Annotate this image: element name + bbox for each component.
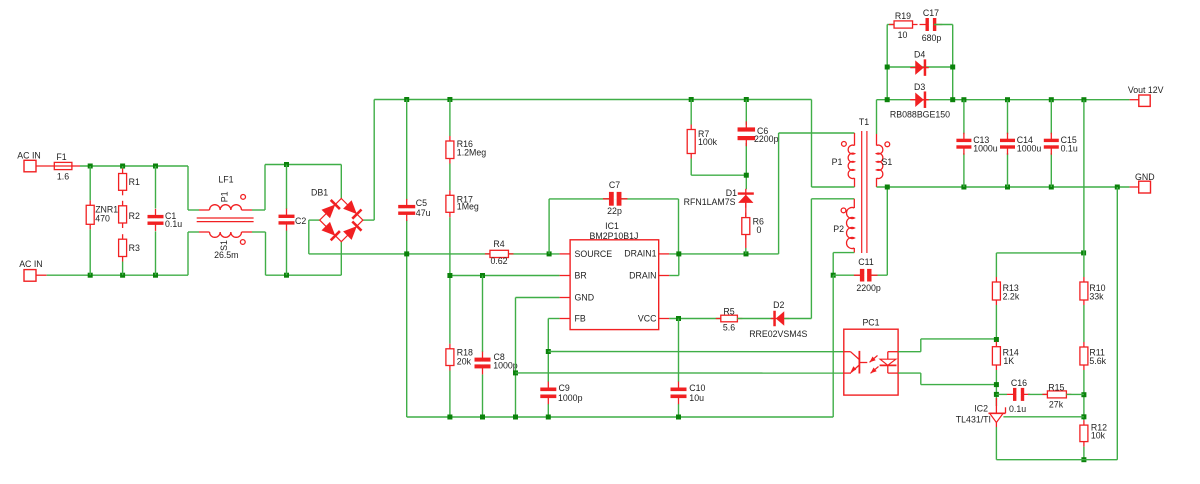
svg-text:DB1: DB1 [311,187,328,197]
svg-text:AC IN: AC IN [19,259,42,269]
svg-text:2200p: 2200p [754,134,779,144]
svg-text:FB: FB [575,314,586,324]
svg-text:C11: C11 [858,257,874,267]
svg-text:R4: R4 [493,239,504,249]
svg-text:Vout 12V: Vout 12V [1128,85,1164,95]
svg-text:1.6: 1.6 [57,172,69,182]
svg-text:RFN1LAM7S: RFN1LAM7S [684,197,736,207]
svg-text:GND: GND [575,293,595,303]
svg-text:22p: 22p [607,206,622,216]
svg-text:680p: 680p [922,33,942,43]
svg-text:0: 0 [757,225,762,235]
svg-text:10k: 10k [1091,431,1106,441]
svg-text:2200p: 2200p [856,283,881,293]
svg-text:1.2Meg: 1.2Meg [457,148,486,158]
svg-text:1000u: 1000u [1017,143,1042,153]
svg-text:BR: BR [575,271,587,281]
svg-text:10: 10 [898,30,908,40]
svg-text:1Meg: 1Meg [457,202,479,212]
svg-text:C5: C5 [416,198,427,208]
svg-text:S1: S1 [882,157,893,167]
svg-text:0.1u: 0.1u [1061,143,1078,153]
svg-text:33k: 33k [1089,292,1104,302]
svg-text:R19: R19 [895,11,911,21]
svg-text:R1: R1 [129,177,140,187]
svg-text:100k: 100k [698,137,718,147]
svg-text:LF1: LF1 [218,175,233,185]
svg-text:IC1: IC1 [605,221,619,231]
svg-text:C10: C10 [689,383,705,393]
svg-text:RRE02VSM4S: RRE02VSM4S [749,329,807,339]
svg-text:F1: F1 [56,152,66,162]
svg-text:470: 470 [95,213,110,223]
svg-text:IC2: IC2 [974,403,988,413]
svg-text:1000u: 1000u [973,143,998,153]
svg-text:C16: C16 [1011,378,1027,388]
svg-text:VCC: VCC [638,314,657,324]
svg-text:5.6: 5.6 [723,322,735,332]
svg-text:TL431/TI: TL431/TI [956,415,991,425]
svg-text:0.1u: 0.1u [1009,404,1026,414]
svg-text:P2: P2 [833,224,844,234]
svg-text:PC1: PC1 [862,318,879,328]
svg-text:C17: C17 [923,8,939,18]
svg-text:0.1u: 0.1u [165,219,182,229]
svg-text:R15: R15 [1048,383,1064,393]
svg-text:1000p: 1000p [558,393,583,403]
svg-text:DRAIN: DRAIN [629,271,656,281]
svg-text:C2: C2 [295,216,306,226]
svg-text:2.2k: 2.2k [1003,292,1020,302]
svg-text:D3: D3 [914,82,925,92]
svg-text:GND: GND [1135,172,1155,182]
svg-text:20k: 20k [457,356,472,366]
svg-text:10u: 10u [689,393,704,403]
svg-text:R2: R2 [129,211,140,221]
svg-text:C9: C9 [559,383,570,393]
svg-text:1K: 1K [1003,356,1014,366]
svg-text:0.62: 0.62 [490,256,507,266]
svg-text:D4: D4 [914,49,925,59]
svg-text:P1: P1 [832,157,843,167]
svg-text:26.5m: 26.5m [214,250,238,260]
svg-text:R5: R5 [723,306,734,316]
svg-text:DRAIN1: DRAIN1 [624,249,656,259]
svg-text:27k: 27k [1049,400,1064,410]
svg-text:C7: C7 [609,180,620,190]
svg-text:P1: P1 [220,191,230,202]
svg-text:5.6k: 5.6k [1089,356,1106,366]
svg-text:1000p: 1000p [493,361,518,371]
svg-text:BM2P10B1J: BM2P10B1J [590,231,639,241]
svg-text:RB088BGE150: RB088BGE150 [890,110,950,120]
svg-text:SOURCE: SOURCE [575,249,613,259]
svg-text:D2: D2 [773,300,784,310]
svg-text:T1: T1 [859,117,869,127]
svg-text:R3: R3 [129,243,140,253]
svg-text:AC IN: AC IN [17,150,40,160]
svg-text:47u: 47u [416,208,431,218]
